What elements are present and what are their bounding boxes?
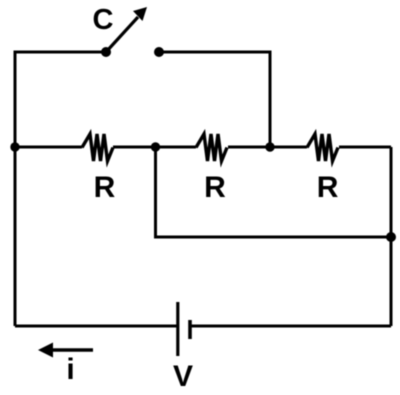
svg-text:R: R bbox=[94, 171, 116, 204]
svg-text:V: V bbox=[173, 360, 193, 393]
svg-text:C: C bbox=[93, 4, 114, 36]
svg-text:R: R bbox=[317, 171, 339, 204]
svg-text:i: i bbox=[66, 353, 74, 386]
svg-text:R: R bbox=[204, 171, 226, 204]
